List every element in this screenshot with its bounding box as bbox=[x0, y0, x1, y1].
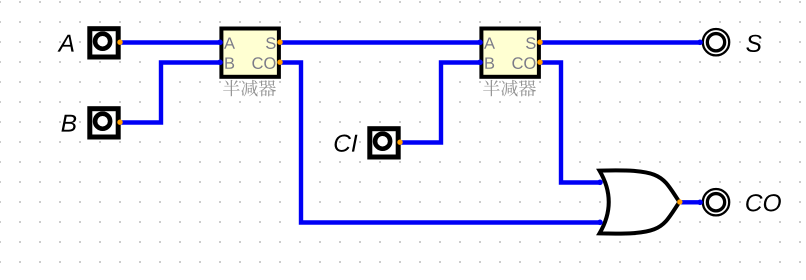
pin dot U2.S output bbox=[537, 40, 542, 45]
U1 caption 半减器 bbox=[223, 80, 276, 97]
node U2.A blue dot bbox=[477, 40, 483, 46]
input button CI bbox=[370, 129, 398, 157]
node U1.B blue dot bbox=[217, 60, 223, 66]
pin dot button CI output bbox=[397, 140, 402, 145]
output terminal S bbox=[703, 29, 729, 55]
U2 pin label CO bbox=[512, 57, 535, 69]
label B bbox=[61, 115, 76, 132]
label S bbox=[746, 35, 761, 52]
node output S pin blue dot bbox=[697, 40, 703, 46]
label CO bbox=[746, 194, 781, 211]
wire U1.S to U2.A bbox=[280, 40, 480, 44]
output terminal CO bbox=[703, 189, 729, 215]
pin dot U1.CO output bbox=[277, 60, 282, 65]
node U1.A blue dot bbox=[217, 40, 223, 46]
U1 pin label CO bbox=[252, 57, 275, 69]
U2 pin label B bbox=[485, 57, 494, 68]
U1 pin label A bbox=[224, 37, 235, 48]
U2 pin label S bbox=[526, 37, 536, 49]
or-gate U3 bbox=[600, 170, 680, 233]
U1 pin label B bbox=[225, 57, 234, 68]
label CI bbox=[335, 134, 358, 151]
pin dot U1.S output bbox=[277, 40, 282, 45]
U2 pin label A bbox=[484, 37, 495, 48]
U1 pin label S bbox=[266, 37, 276, 49]
pin dot OR output bbox=[677, 199, 682, 204]
wire U1.CO to OR input 2 bbox=[280, 63, 600, 223]
wire A: button A to U1 pin A bbox=[120, 40, 220, 44]
node U2.B blue dot bbox=[477, 60, 483, 66]
label A bbox=[57, 35, 73, 52]
pin dot button A output bbox=[117, 40, 122, 45]
pin dot U2.CO output bbox=[537, 60, 542, 65]
pin dot button B output bbox=[117, 120, 122, 125]
input button A bbox=[90, 29, 118, 57]
wire CI: button CI to U2 pin B bbox=[400, 63, 480, 143]
half subtractor U2 body bbox=[481, 29, 539, 77]
wire B: button B to U1 pin B bbox=[120, 63, 220, 123]
wire U2.S to output S bbox=[540, 40, 700, 44]
wire U2.CO to OR input 1 bbox=[540, 63, 600, 183]
U2 caption 半减器 bbox=[483, 80, 536, 97]
input button B bbox=[90, 109, 118, 137]
node OR input1 blue dot bbox=[597, 180, 603, 186]
node output CO pin blue dot bbox=[697, 200, 703, 206]
wire OR output to output CO bbox=[680, 200, 700, 204]
half subtractor U1 body bbox=[221, 29, 279, 77]
node OR input2 blue dot bbox=[597, 220, 603, 226]
